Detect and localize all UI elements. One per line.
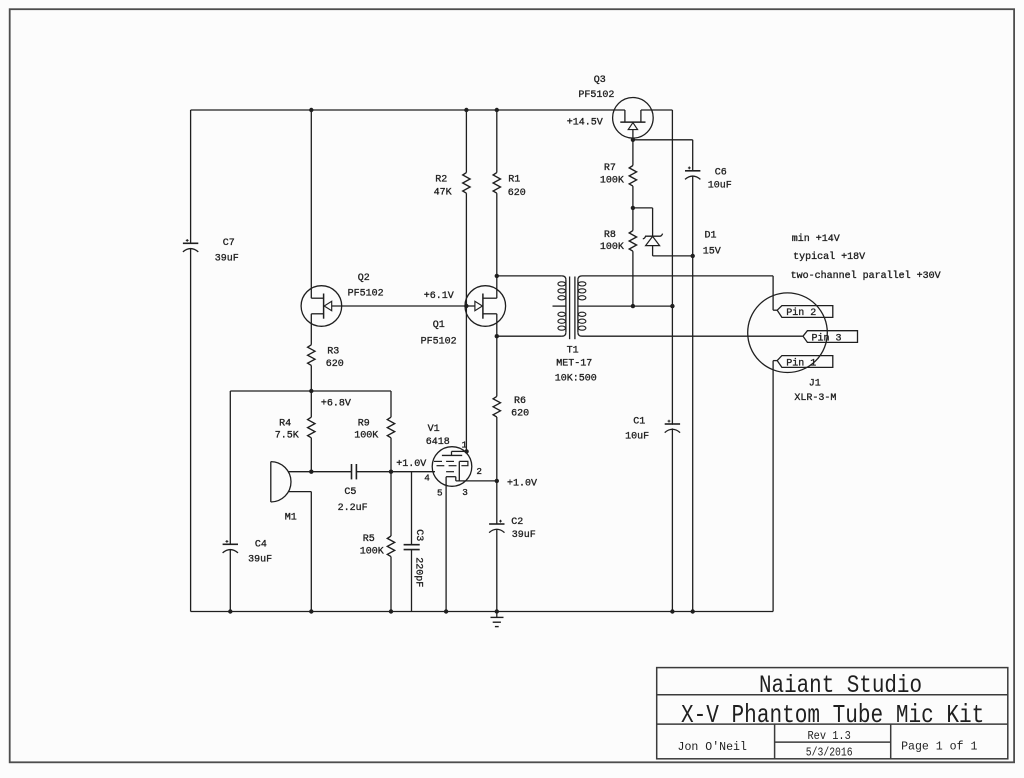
svg-text:typical +18V: typical +18V xyxy=(793,251,865,263)
svg-text:220pF: 220pF xyxy=(412,557,423,587)
svg-text:R9: R9 xyxy=(358,419,370,430)
svg-text:6418: 6418 xyxy=(426,437,450,448)
svg-text:47K: 47K xyxy=(434,187,452,198)
svg-text:39uF: 39uF xyxy=(512,530,536,541)
svg-text:R1: R1 xyxy=(508,174,520,185)
svg-text:5/3/2016: 5/3/2016 xyxy=(806,747,853,760)
svg-text:10uF: 10uF xyxy=(625,432,649,443)
svg-text:100K: 100K xyxy=(600,175,624,186)
svg-text:4: 4 xyxy=(424,472,430,483)
svg-text:Page 1 of 1: Page 1 of 1 xyxy=(901,740,977,754)
svg-text:PF5102: PF5102 xyxy=(348,289,384,300)
svg-text:5: 5 xyxy=(437,488,443,499)
svg-text:Q2: Q2 xyxy=(358,273,370,284)
svg-text:PF5102: PF5102 xyxy=(421,337,457,348)
svg-text:R3: R3 xyxy=(327,346,339,357)
svg-text:MET-17: MET-17 xyxy=(556,358,592,369)
svg-text:M1: M1 xyxy=(285,512,297,523)
svg-text:XLR-3-M: XLR-3-M xyxy=(794,393,836,404)
svg-text:R4: R4 xyxy=(279,419,291,430)
svg-text:3: 3 xyxy=(462,487,468,498)
svg-text:+1.0V: +1.0V xyxy=(507,478,537,489)
svg-text:PF5102: PF5102 xyxy=(578,90,614,101)
svg-text:+6.1V: +6.1V xyxy=(424,291,454,302)
svg-text:Rev 1.3: Rev 1.3 xyxy=(808,730,851,743)
svg-text:C3: C3 xyxy=(413,529,424,541)
svg-text:100K: 100K xyxy=(360,547,384,558)
svg-text:D1: D1 xyxy=(705,231,717,242)
svg-text:min +14V: min +14V xyxy=(792,233,840,245)
svg-text:R6: R6 xyxy=(514,396,526,407)
svg-text:39uF: 39uF xyxy=(248,555,272,566)
svg-text:X-V Phantom Tube Mic Kit: X-V Phantom Tube Mic Kit xyxy=(681,700,984,730)
svg-text:C7: C7 xyxy=(223,238,235,249)
svg-text:C1: C1 xyxy=(633,416,645,427)
svg-text:R8: R8 xyxy=(604,230,616,241)
svg-text:Pin 2: Pin 2 xyxy=(786,307,816,319)
svg-text:620: 620 xyxy=(326,359,344,370)
svg-text:2: 2 xyxy=(476,466,482,477)
svg-text:Pin 3: Pin 3 xyxy=(812,333,842,345)
svg-text:two-channel parallel +30V: two-channel parallel +30V xyxy=(791,270,941,282)
svg-text:Q1: Q1 xyxy=(433,320,445,331)
svg-text:620: 620 xyxy=(508,188,526,199)
svg-text:R7: R7 xyxy=(604,163,616,174)
svg-text:100K: 100K xyxy=(600,242,624,253)
svg-text:C6: C6 xyxy=(715,168,727,179)
svg-text:+14.5V: +14.5V xyxy=(567,117,603,128)
svg-text:10K:500: 10K:500 xyxy=(555,373,597,384)
svg-text:7.5K: 7.5K xyxy=(275,431,299,442)
svg-text:T1: T1 xyxy=(567,346,579,357)
svg-text:R5: R5 xyxy=(363,534,375,545)
svg-text:100K: 100K xyxy=(354,431,378,442)
svg-text:39uF: 39uF xyxy=(215,254,239,265)
svg-text:Q3: Q3 xyxy=(594,75,606,86)
svg-text:Jon O'Neil: Jon O'Neil xyxy=(678,740,747,754)
svg-text:Pin 1: Pin 1 xyxy=(786,358,816,370)
svg-text:15V: 15V xyxy=(703,246,721,257)
svg-text:+1.0V: +1.0V xyxy=(396,459,426,470)
svg-text:C2: C2 xyxy=(511,517,523,528)
svg-text:+6.8V: +6.8V xyxy=(321,399,351,410)
svg-text:1: 1 xyxy=(462,440,468,451)
svg-text:620: 620 xyxy=(511,409,529,420)
svg-text:10uF: 10uF xyxy=(708,180,732,191)
svg-text:J1: J1 xyxy=(809,379,821,390)
svg-text:R2: R2 xyxy=(435,174,447,185)
svg-text:V1: V1 xyxy=(428,424,440,435)
svg-text:Naiant Studio: Naiant Studio xyxy=(759,672,922,700)
svg-text:2.2uF: 2.2uF xyxy=(338,503,368,514)
svg-text:C5: C5 xyxy=(344,487,356,498)
svg-text:C4: C4 xyxy=(255,540,267,551)
